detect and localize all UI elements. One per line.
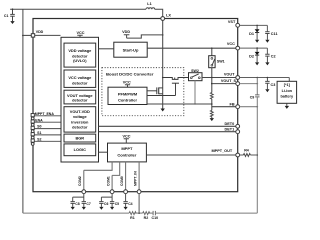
svg-text:VDD: VDD [36,30,44,34]
node C3 junction [267,77,269,79]
wire COM0 stub [125,162,127,190]
pin MPPT_OUT [236,153,240,157]
node LX pin [161,17,165,21]
pin FB [236,105,240,109]
block BGR [64,134,96,142]
svg-text:C5: C5 [115,202,119,206]
label VOUT_S [221,79,237,83]
block MPPT Controller [108,143,147,162]
block PFM/PWM Controller [108,87,147,104]
svg-text:VOUT: VOUT [224,72,235,76]
diode D2 [256,48,258,52]
svg-text:VCC: VCC [123,135,131,139]
svg-text:LOGIC: LOGIC [74,147,87,152]
svg-text:VDD: VDD [122,30,130,34]
pin VOUT [236,76,240,80]
svg-text:DET1: DET1 [225,128,235,132]
svg-text:BGR: BGR [75,135,84,140]
svg-text:S0: S0 [37,125,41,129]
ground D2 [255,62,259,65]
svg-text:C6: C6 [104,202,108,206]
wire COM0 cap stem [125,194,127,202]
wire MPPT_IN stub [138,162,140,190]
capacitor C3 [266,78,268,82]
capacitor C5 [110,202,114,204]
wire SW2 to VOUT pin [202,77,236,79]
switch SW2 [189,73,203,81]
transistor PMOS high-side [147,78,189,96]
svg-text:SW2: SW2 [191,69,199,73]
svg-text:C4: C4 [128,202,132,206]
capacitor C6 [99,202,103,204]
svg-text:COM1: COM1 [107,176,111,186]
wire MPPT to MPPT_OUT pin [146,154,235,156]
pin VDD square [31,34,34,37]
diode D1 [256,25,258,29]
ground D1 [255,40,259,43]
ground C2 [265,62,269,65]
node junction LX / startup [162,34,164,36]
switch SW1 [211,47,213,49]
svg-text:Boost DC/DC Converter: Boost DC/DC Converter [106,72,154,76]
wire MPPT_OUT external with resistor R4 [240,154,244,156]
svg-text:detector: detector [72,125,88,130]
IC chip outline [33,19,238,192]
svg-text:VOUT_S: VOUT_S [221,79,237,83]
block VOUT-VDD voltage inversion detector [64,107,96,132]
inductor L1 [146,8,163,17]
svg-text:LX: LX [166,13,171,17]
svg-text:Li-ion: Li-ion [282,89,293,93]
svg-text:D1: D1 [249,32,254,36]
capacitor C8 [71,202,75,204]
svg-text:VOUT-VDD: VOUT-VDD [70,109,90,114]
capacitor C2 [266,48,268,54]
svg-text:C10: C10 [152,216,159,220]
capacitor C10 [153,211,155,215]
pin DET0 [236,124,240,128]
wire FB external [240,106,258,108]
svg-text:C9: C9 [250,96,255,100]
resistor R2 [143,212,150,215]
wire LX vertical [162,20,164,77]
block VCC voltage detector [64,70,96,87]
svg-text:C11: C11 [271,32,278,36]
node D2 junction [256,47,258,49]
wire column to Start-Up [99,48,114,50]
wire VCC external [240,47,268,49]
wire Start-Up output to VCC pin [147,47,236,49]
node FB junction [211,103,213,105]
label VOUT [224,72,237,76]
wire VOUT external [240,78,290,82]
svg-text:C7: C7 [86,202,90,206]
svg-text:Controller: Controller [118,97,138,102]
resistor upper divider [210,93,213,100]
svg-text:VDD voltage: VDD voltage [68,48,92,53]
detector column block [61,37,99,162]
capacitor C9 [255,95,259,97]
svg-text:MPPT_ENA: MPPT_ENA [35,112,55,116]
wire LX chain down [162,78,164,109]
block VOUT voltage detector [64,90,96,104]
svg-text:voltage: voltage [73,114,87,119]
node SW1 VOUT junction [211,77,213,79]
svg-text:R4: R4 [244,149,249,153]
svg-text:D2: D2 [249,55,254,59]
svg-text:VCC: VCC [77,31,85,35]
node VDD junction on left rail [22,35,24,37]
capacitor C4 [123,202,127,204]
block LOGIC [64,144,96,156]
wire top rail VDD [10,8,146,10]
pin VCC [236,46,240,50]
wire VST external [240,24,268,26]
svg-text:R1: R1 [130,216,135,220]
wire COM2 feed from MPPT box [84,162,112,190]
wire SW2 bottom stub [194,81,196,104]
wire right vertical net [256,78,258,214]
svg-text:VCC: VCC [123,81,131,85]
node VOUT_S junction [211,83,213,85]
svg-text:detector: detector [72,97,88,102]
svg-text:C1: C1 [4,14,9,18]
pin COM1 [110,190,114,194]
resistor lower divider [210,110,213,117]
ground C3 [265,89,269,92]
wire VDD pin to detector column [35,34,61,36]
wire FB to pin [212,106,236,108]
svg-text:[*1]: [*1] [284,83,291,87]
svg-text:(UVLO): (UVLO) [73,58,87,63]
wire COM2 caps branch [73,194,84,202]
pin MPPT_ENA [31,112,61,120]
node VOUT_S net junction [257,83,259,85]
FB divider chain [211,78,213,93]
wire PFM to FB divider junction [147,103,212,105]
battery Li-ion box [277,81,297,103]
wire MPPT_IN to bottom rail [138,194,140,214]
svg-text:COM0: COM0 [120,176,124,186]
svg-text:Controller: Controller [117,152,137,157]
wire COM1 feed jog [112,162,120,190]
wire DET0 [99,125,236,127]
svg-text:MPPT: MPPT [121,146,133,151]
block Start-Up [114,42,147,57]
node MPPT_IN junction on bottom rail [138,212,140,214]
pin DET1 [236,130,240,134]
pin S1 [31,131,61,139]
pin COM2 [82,190,86,194]
svg-text:VST: VST [228,20,236,24]
wire DET1 [99,131,236,133]
wire LOGIC to MPPT [99,151,108,153]
node LX boost junction [162,77,164,79]
svg-text:PFM/PWM: PFM/PWM [118,91,138,96]
boost converter dashed box [102,68,184,116]
label DET1 [224,127,235,130]
wire VOUT_S to pin [212,83,236,85]
ground C11 [265,40,269,43]
svg-text:Start-Up: Start-Up [123,48,139,53]
ground C4 [124,207,128,210]
ground battery [286,103,288,106]
node C1 junction [12,8,14,10]
transistor NMOS low-side [147,87,163,94]
svg-text:DET0: DET0 [225,122,235,126]
svg-text:R2: R2 [144,216,149,220]
node VOUT net junction [257,77,259,79]
svg-text:MPPT_OUT: MPPT_OUT [212,149,233,153]
capacitor C11 [266,25,268,31]
svg-text:inversion: inversion [71,119,89,124]
pin COM0 [124,190,128,194]
node R4 net junction [257,154,259,156]
ground C8 [71,207,75,210]
pin S2 [31,137,61,145]
node FB net junction [257,106,259,108]
svg-text:S2: S2 [37,137,41,141]
ground FB divider [210,118,214,121]
svg-text:ENA: ENA [35,118,43,122]
ground of C1 [10,21,14,24]
wire VOUT_S external [240,83,258,85]
ground C5 [110,207,114,210]
svg-text:L1: L1 [147,2,151,6]
pin VOUT_S [236,82,240,86]
label DET0 [224,122,235,125]
svg-text:S1: S1 [37,131,41,135]
node D1 junction [256,25,258,27]
svg-text:C2: C2 [271,55,276,59]
ground C6 [99,207,103,210]
pin MPPT_IN [137,190,141,194]
svg-text:VCC voltage: VCC voltage [68,75,92,80]
svg-text:C8: C8 [75,202,79,206]
svg-text:C3: C3 [271,83,276,87]
capacitor C1 [10,9,15,21]
wire left rail [22,9,24,213]
wire COM1 caps branch [101,194,112,202]
svg-text:FB: FB [230,102,235,106]
svg-text:MPPT_IN: MPPT_IN [134,171,138,186]
resistor R1 [129,212,136,215]
svg-text:detector: detector [72,80,88,85]
pin VST [236,23,240,27]
svg-text:battery: battery [280,95,294,99]
capacitor C7 [82,202,86,204]
ground C7 [82,207,86,210]
block VDD voltage detector (UVLO) [64,43,96,67]
svg-text:SW1: SW1 [217,60,225,64]
ground boost NMOS source [161,109,165,112]
wire Start-Up top to LX [127,35,163,38]
wire VDD to pin [23,34,31,36]
pin ENA [31,118,61,126]
pin S0 [31,125,61,133]
svg-text:VCC: VCC [227,42,235,46]
wire bottom rail [23,212,257,214]
svg-text:COM2: COM2 [78,176,82,186]
